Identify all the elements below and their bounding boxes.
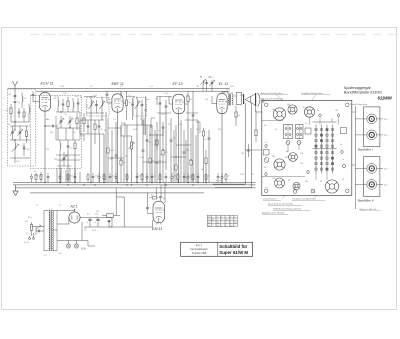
trimmer diamond D1 [319, 114, 322, 118]
capacitor C16b [158, 122, 164, 136]
tube EM11 (magic eye) [153, 201, 165, 223]
svg-text:1M: 1M [240, 95, 243, 97]
svg-text:100: 100 [272, 109, 275, 111]
resistor R9c [235, 106, 241, 126]
svg-text:90: 90 [234, 222, 236, 224]
svg-text:10k: 10k [335, 110, 338, 112]
coil former L16 oscillator [325, 180, 338, 193]
coil L7 IF primary [89, 97, 95, 114]
resistor R12 EM11 grid [96, 211, 120, 219]
svg-text:3n: 3n [340, 144, 342, 146]
resistor/capacitor row above chassis bus [35, 173, 231, 183]
loudspeaker LS [234, 93, 260, 107]
svg-text:25p: 25p [300, 153, 303, 155]
electrolytic capacitor C21 [87, 218, 92, 228]
wire chassis bus 2 [13, 184, 256, 186]
capacitor C14 det [146, 132, 152, 183]
coil former L13 [274, 159, 285, 170]
svg-text:1M: 1M [196, 86, 199, 88]
wire oscillator bottom [56, 152, 80, 183]
resistor R9 plate load [187, 91, 193, 110]
trimmer diamond D6 [341, 150, 344, 154]
svg-text:2M: 2M [218, 129, 221, 131]
svg-text:1,4: 1,4 [208, 220, 211, 222]
leader underlines [261, 95, 331, 101]
svg-text:3n: 3n [342, 159, 344, 161]
svg-text:90: 90 [208, 225, 210, 227]
svg-text:0,1 µF: 0,1 µF [216, 180, 223, 182]
tube AZ1 (rectifier) [69, 209, 80, 223]
svg-text:2M: 2M [54, 159, 57, 161]
svg-text:0,1: 0,1 [303, 107, 306, 109]
svg-text:Schaltbild für: Schaltbild für [219, 244, 247, 249]
svg-text:EL 11: EL 11 [219, 82, 229, 86]
wire EL11 grid [212, 96, 217, 104]
capacitor C11 [87, 120, 90, 134]
capacitor C5b [75, 96, 80, 112]
coil plate outline [262, 100, 352, 195]
faint bleed-through header smudge [30, 34, 399, 36]
wire EM11 loop [109, 188, 153, 227]
svg-text:2: 2 [217, 220, 218, 222]
wire filter ground [85, 227, 112, 229]
svg-text:1M: 1M [174, 176, 177, 178]
IF transformer T2 (dashed can) [134, 98, 147, 117]
padder block C24 [284, 125, 293, 139]
svg-text:10k: 10k [272, 178, 275, 180]
small trimmer C29 [342, 164, 345, 167]
svg-text:10k: 10k [287, 104, 290, 106]
wire EBF11 cathode drop [117, 112, 119, 182]
resistor R1 [6, 104, 13, 120]
leader labels below plate [261, 198, 317, 215]
wire EL11 cathode drop [221, 114, 223, 183]
svg-text:≀: ≀ [213, 76, 214, 79]
wire EF13 mesh [185, 120, 198, 183]
IF transformer T1 (dashed can) [87, 98, 110, 117]
capacitor C4 [23, 143, 30, 156]
tube EL11 (output pentode) [217, 93, 227, 113]
resistor R13 bias [34, 172, 42, 183]
capacitor C12 screen bypass [131, 98, 134, 113]
coil L1 antenna [22, 93, 27, 109]
resistor R10b [255, 110, 257, 142]
coil L3 wave band [12, 140, 20, 158]
svg-text:k: k [221, 217, 222, 219]
svg-text:1M: 1M [25, 221, 28, 223]
wire stage ties [84, 97, 198, 114]
band switch contact labels [3, 92, 5, 160]
resistor R9b [156, 134, 158, 150]
svg-text:Bandfilter I: Bandfilter I [358, 148, 373, 152]
mains switch S1 [32, 211, 45, 230]
wire antenna node [11, 106, 29, 130]
capacitor C32 EM11 left [146, 208, 153, 214]
EM11 base pins [157, 223, 161, 225]
coil L6 padder coil [60, 140, 61, 155]
svg-text:30: 30 [288, 180, 290, 182]
bandfilter II leads [355, 168, 388, 186]
coil L4 oscillator [54, 97, 60, 113]
wire C15 run [157, 97, 172, 183]
wire heater bus [30, 192, 204, 194]
resistor R7 [94, 120, 96, 138]
capacitor C19 across speaker [241, 144, 250, 157]
wire EF13 cathode drop [178, 114, 180, 183]
capacitor C16 [162, 100, 168, 116]
svg-text:6: 6 [230, 222, 231, 224]
svg-text:L: L [3, 152, 4, 154]
trimmer C24b [286, 141, 290, 145]
small trimmer C26 [264, 158, 269, 163]
variable capacitor C8b [62, 152, 68, 166]
capacitor C10 IF [93, 95, 98, 106]
resistor R5 [74, 140, 76, 155]
capacitor C18 tone [209, 76, 216, 91]
svg-text:2M: 2M [27, 149, 30, 151]
power section value labels [26, 205, 99, 257]
svg-text:90: 90 [230, 225, 232, 227]
wire EBF plate [121, 91, 133, 120]
svg-text:8p: 8p [286, 151, 288, 153]
shield box antenna circuit [8, 89, 36, 166]
wire B+ line [80, 218, 112, 228]
plate interior part labels [264, 104, 344, 189]
mounting hole bottom-right [346, 189, 350, 193]
mounting hole bottom-left [264, 189, 268, 193]
svg-text:30: 30 [264, 125, 266, 127]
svg-text:30: 30 [320, 181, 322, 183]
padder block C25 [296, 125, 304, 139]
svg-text:Fernmeldewerk: Fernmeldewerk [190, 248, 208, 251]
small trimmer C28 [293, 190, 297, 194]
resistor R2 [22, 126, 28, 148]
wire L-jogs [121, 118, 200, 135]
small trimmer C27 [311, 189, 315, 193]
connector diamond plate input [262, 99, 264, 102]
svg-text:AZ 1: AZ 1 [70, 204, 78, 208]
terminal strip TS1 [264, 150, 270, 156]
capacitor C7 trimmer [68, 116, 74, 128]
wire EBF11 grid lead [106, 91, 112, 103]
mounting hole top-left [264, 103, 268, 107]
wire EM11 feeds [148, 183, 166, 208]
wire IF2 leads [137, 112, 142, 183]
trimmer diamond D3 [265, 144, 268, 148]
IF pot core L21 [367, 180, 377, 190]
capacitor C30 bias [30, 174, 32, 183]
resistor R8 screen [125, 91, 131, 113]
resistor R6 AVC [80, 113, 85, 137]
shield box oscillator [31, 96, 82, 169]
terminal strip TS3 [305, 128, 311, 134]
trimmer C25b [297, 141, 301, 145]
coil former L12 [304, 107, 314, 117]
wire ECH11 cathode drop [44, 111, 46, 182]
svg-text:90: 90 [212, 220, 214, 222]
wire chassis bus 1 [13, 182, 256, 184]
svg-text:10: 10 [208, 222, 210, 224]
svg-text:Bandf. Eing. über: Bandf. Eing. über [351, 104, 368, 106]
svg-text:611WM: 611WM [378, 96, 393, 101]
trimmer diamond D5 [307, 170, 310, 174]
capacitor C1b [18, 108, 21, 118]
svg-text:1M: 1M [96, 211, 99, 213]
svg-text:100: 100 [305, 181, 308, 183]
tube ECH11 (mixer-oscillator) [39, 92, 50, 111]
coil L9 IF2 primary [135, 97, 141, 113]
wire rail to coil plate [213, 103, 252, 188]
wire plate to bandfilter [352, 112, 356, 165]
svg-text:k: k [234, 217, 235, 219]
wire oscillator mesh [56, 112, 80, 140]
variable capacitor C2 tuning [10, 126, 16, 140]
svg-text:ECH 11: ECH 11 [41, 81, 54, 85]
bandfilter I can [364, 107, 380, 147]
svg-text:0,2: 0,2 [265, 187, 268, 189]
coil L2 [29, 104, 30, 119]
coil former L17 [293, 182, 300, 189]
node junction B [44, 111, 70, 128]
svg-text:0,5: 0,5 [275, 129, 278, 131]
svg-text:2M: 2M [241, 153, 244, 155]
coil former L14 [289, 153, 298, 162]
tube data table [207, 215, 237, 227]
power transformer T3 [44, 210, 57, 252]
wire top AVC bus [8, 88, 230, 90]
svg-text:Bandfilterplatte 611W1: Bandfilterplatte 611W1 [344, 91, 382, 95]
svg-text:0,1: 0,1 [265, 142, 268, 144]
svg-text:Ausschnitt für den Drehko: Ausschnitt für den Drehko [267, 203, 294, 206]
output transformer Tr2 [222, 92, 233, 110]
svg-text:1M: 1M [46, 149, 49, 151]
electrolytic capacitor C22 [95, 218, 100, 228]
svg-text:2: 2 [230, 217, 231, 219]
svg-text:Angaben ohne Gewähr: Angaben ohne Gewähr [261, 212, 285, 215]
svg-text:1M: 1M [264, 167, 267, 169]
capacitor C20 mains [36, 227, 44, 251]
IF pot core L18 [367, 114, 377, 124]
wire IF1 leads [86, 106, 102, 183]
svg-text:EF 13: EF 13 [173, 82, 184, 86]
bandfilter II can [364, 157, 380, 197]
trimmer diamond D2 [337, 114, 340, 118]
variable capacitor C3 tuning [18, 126, 24, 140]
IF pot core L20 [367, 164, 377, 174]
svg-text:5n: 5n [317, 110, 319, 112]
antenna [13, 81, 18, 100]
wire det mesh [121, 125, 152, 183]
scattered component value labels [34, 89, 255, 176]
coil former L10 [273, 108, 285, 120]
tube-level value labels [54, 86, 243, 109]
svg-text:Spulenaggregat: Spulenaggregat [344, 86, 372, 90]
plate internal wiring [262, 117, 339, 180]
coil plate leader labels [260, 92, 324, 101]
svg-text:70: 70 [342, 179, 344, 181]
resistor R14 EM11 top [150, 195, 159, 200]
ground symbol [13, 185, 18, 196]
capacitor C15 coupling [156, 97, 162, 113]
band switch contact ladder [313, 122, 337, 174]
wire horizontal links row [57, 128, 191, 162]
junction dots on buses [44, 182, 222, 186]
svg-text:Super 61/W M: Super 61/W M [219, 250, 248, 255]
annotation value note [216, 180, 223, 182]
label bandfilter note [359, 208, 382, 211]
junction dots midband [111, 134, 191, 160]
capacitor C23 EM11 [108, 221, 111, 228]
bandfilter I leads [355, 119, 388, 137]
terminal strip TS2 [341, 128, 347, 134]
wire rails into plate [245, 106, 262, 150]
svg-text:EM 11: EM 11 [152, 227, 163, 231]
tube EBF11 (IF amp / detector) [112, 94, 123, 112]
title block box [181, 242, 253, 256]
svg-text:R F T: R F T [196, 243, 203, 247]
transformer Tr tone/feedback [200, 76, 208, 91]
svg-text:90: 90 [217, 225, 219, 227]
svg-text:6,3V: 6,3V [81, 248, 86, 251]
capacitor C8 [67, 140, 73, 152]
tube EF13 (AF preamp) [173, 94, 185, 114]
wire bandfilter feed rail [354, 106, 356, 209]
capacitor C5 padder [62, 99, 65, 112]
resistor R1b [23, 108, 25, 122]
coil former L11 [288, 105, 297, 114]
wire left section bottom [10, 126, 30, 163]
capacitor C9 coupling [45, 125, 58, 128]
svg-text:4k 30: 4k 30 [24, 242, 30, 244]
wire ECH11 grid lead [32, 91, 40, 102]
wire vertical drops with inline resistors/capacitors [57, 118, 210, 183]
wire heater run [82, 222, 95, 246]
svg-text:10k: 10k [272, 156, 275, 158]
mains terminals [24, 233, 35, 244]
wire EF column pair [141, 97, 147, 136]
svg-text:Bandfilter II: Bandfilter II [358, 199, 374, 203]
resistor R4 [73, 113, 78, 134]
svg-text:Antennen-Drehko über: Antennen-Drehko über [260, 92, 283, 95]
svg-text:3n: 3n [305, 123, 307, 125]
potentiometer P1 volume [125, 136, 135, 183]
svg-text:L: L [3, 92, 4, 94]
svg-text:Oszillator-Drehko über: Oszillator-Drehko über [301, 92, 323, 95]
svg-text:L: L [3, 146, 4, 148]
svg-text:2: 2 [230, 220, 231, 222]
capacitor C11b [98, 120, 104, 134]
svg-text:UKW-Einsatz Einbau Drehko: UKW-Einsatz Einbau Drehko [273, 208, 302, 211]
capacitor C13 IF2 [141, 100, 144, 112]
svg-text:10: 10 [226, 220, 228, 222]
capacitor C1 antenna coupling [14, 96, 21, 107]
variable capacitor C6 osc tuning [59, 116, 65, 128]
dial lamps [57, 241, 88, 251]
capacitor C17 coupling to EL11 [185, 91, 195, 124]
wire chassis bus 3 [15, 187, 256, 189]
svg-text:10k: 10k [300, 163, 303, 165]
node junction A [14, 121, 15, 140]
svg-text:Treptow VEB: Treptow VEB [192, 252, 207, 255]
wire top screen bus [36, 90, 230, 92]
coil L8 IF secondary [100, 97, 106, 114]
wire AVC mesh [80, 112, 106, 183]
coil former L15 [275, 178, 285, 188]
svg-text:6: 6 [226, 225, 227, 227]
svg-text:Tr: Tr [200, 76, 202, 79]
svg-text:Abgleich 468 kHz: Abgleich 468 kHz [359, 208, 378, 211]
svg-text:10: 10 [217, 222, 219, 224]
resistor R10 grid leak [201, 150, 208, 183]
svg-text:1,4: 1,4 [208, 217, 211, 219]
wire EF13 grid lead [169, 97, 173, 105]
capacitor C31 EM11 top [159, 197, 167, 201]
trimmer diamond D4 [265, 172, 268, 176]
resistor R11 surge [25, 221, 33, 236]
coil L5 oscillator feedback [73, 98, 74, 112]
resistor R3 oscillator grid [65, 97, 70, 117]
IF pot core L19 [367, 130, 377, 140]
wire AZ1 anode feeds [57, 209, 75, 251]
mounting hole top-right [346, 103, 350, 107]
